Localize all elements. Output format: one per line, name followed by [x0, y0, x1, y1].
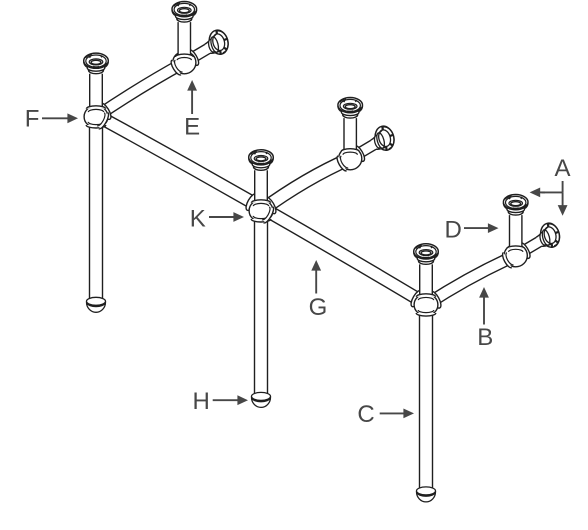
front fitting C — [409, 264, 443, 490]
svg-text:A: A — [555, 155, 571, 182]
label D — [445, 216, 499, 243]
svg-text:E: E — [184, 114, 200, 141]
top flange on D — [503, 195, 528, 216]
svg-text:K: K — [190, 206, 206, 233]
label F — [25, 106, 78, 133]
wall flange E-end — [205, 28, 231, 56]
svg-text:B: B — [477, 324, 493, 351]
foot of leg F — [87, 297, 106, 312]
svg-text:D: D — [445, 216, 462, 243]
top flange on C — [414, 244, 439, 265]
foot of leg C — [417, 487, 436, 502]
back tee fitting M — [335, 118, 367, 172]
arm pipe E to wall flange — [182, 38, 222, 67]
svg-text:C: C — [357, 401, 374, 428]
wall flange D-end — [536, 221, 562, 249]
front fitting K — [244, 170, 278, 395]
top flange on M — [338, 98, 363, 119]
label C — [357, 401, 414, 428]
front fitting F — [84, 74, 113, 301]
arm pipe M to wall flange — [348, 134, 388, 163]
label K — [190, 206, 244, 233]
svg-text:F: F — [25, 106, 40, 133]
back tee fitting E — [169, 22, 201, 76]
top flange on E — [172, 2, 197, 23]
svg-text:H: H — [193, 388, 210, 415]
arm pipe C-D — [423, 251, 518, 310]
label A — [530, 155, 571, 216]
top flange on F — [84, 53, 109, 74]
label E — [184, 80, 200, 141]
arm pipe K-M — [258, 153, 354, 216]
rail pipe G — [102, 111, 421, 308]
arm pipe F-E — [93, 58, 187, 122]
arm pipe D to wall flange — [513, 231, 553, 260]
label H — [193, 388, 249, 415]
svg-text:G: G — [309, 294, 328, 321]
foot of leg K — [252, 392, 271, 407]
back tee fitting D — [501, 215, 533, 269]
wall flange M-end — [371, 124, 397, 152]
label G — [309, 260, 328, 321]
top flange on K — [249, 150, 274, 171]
label B — [477, 287, 493, 351]
